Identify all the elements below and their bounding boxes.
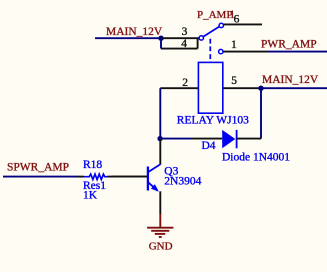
transistor emitter diagonal [149,183,158,191]
resistor R18 left pin [78,176,84,178]
diode cathode pin line [237,138,261,140]
transistor base pin [112,176,147,178]
svg-text:Diode 1N4001: Diode 1N4001 [222,151,290,163]
relay coil box (RELAY WJ103) [198,62,222,113]
ground bar 2 [151,230,169,232]
diode anode pin line [192,138,222,140]
pin 6 line [224,23,262,25]
svg-text:2: 2 [182,77,188,89]
transistor base bar [147,167,149,191]
ground bar 3 [155,233,166,235]
svg-text:R18: R18 [83,159,102,171]
svg-text:MAIN_12V: MAIN_12V [106,26,163,38]
svg-text:GND: GND [149,240,173,252]
svg-text:D4: D4 [202,140,216,152]
transistor collector diagonal [149,164,161,172]
svg-text:MAIN_12V: MAIN_12V [262,74,319,86]
junction at pin5 / MAIN_12V [258,86,263,91]
wire MAIN_12V horizontal [95,37,161,39]
ground stem [159,214,161,227]
switch contact circle (pin 6) [219,23,223,27]
transistor emitter pin [159,191,161,214]
svg-text:6: 6 [234,13,240,25]
diode D4 triangle [222,130,235,148]
svg-text:RELAY WJ103: RELAY WJ103 [177,114,249,126]
wire PWR_AMP [268,51,327,53]
wire MAIN_12V right [261,87,327,89]
transistor Q3 collector pin [159,139,161,165]
pin 3 line of relay switch [161,37,199,39]
pin 2 line [160,87,198,89]
transistor emitter arrow [151,184,159,191]
switch lever [203,27,219,37]
ground bar 1 [147,227,173,229]
switch contact circle (pin 1) [219,49,223,53]
pin 1 line [223,51,268,53]
svg-text:P_AMP: P_AMP [197,9,232,21]
svg-text:1: 1 [231,39,237,51]
junction at diode branch [157,136,162,141]
svg-text:2N3904: 2N3904 [164,175,201,187]
svg-text:SPWR_AMP: SPWR_AMP [7,161,69,173]
dashed actuator link [209,39,211,63]
wire left vertical (pin2 down) [159,88,161,139]
svg-text:5: 5 [231,75,237,87]
resistor R18 right pin [108,176,148,178]
wire junction down to pin4 row [160,38,162,48]
ground bar 4 [159,236,162,238]
svg-text:PWR_AMP: PWR_AMP [261,38,317,50]
junction at MAIN_12V / pin3 [158,36,163,41]
svg-text:4: 4 [181,38,187,50]
resistor R18 zigzag body [84,174,108,179]
wire diode anode side [160,138,192,140]
switch contact circle (common, pin 3/4) [199,36,203,40]
wire SPWR_AMP [3,176,78,178]
svg-text:1K: 1K [83,189,98,201]
diode cathode bar [236,130,238,148]
svg-text:3: 3 [182,26,188,38]
pin 4 line of relay switch [161,48,198,50]
tie line pin3-pin4 [197,38,199,48]
pin 5 line [223,87,261,89]
wire junction down right side [260,88,262,138]
